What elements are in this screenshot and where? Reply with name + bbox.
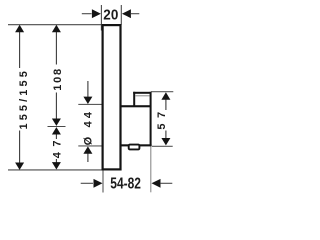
arrow down 155/155 <box>15 163 24 170</box>
wall plate (side view) <box>103 25 121 169</box>
handle inner detail line <box>135 95 150 97</box>
handle bottom edge (left of button) <box>120 144 128 146</box>
wire 57 bottom extension <box>152 145 173 147</box>
dimension 54-82 line right tail <box>160 182 172 184</box>
dimension 20 line left tail <box>82 13 92 15</box>
arrow left 54-82 <box>152 179 161 188</box>
arrow down Ø44 (above top ext) <box>83 97 92 104</box>
svg-text:108: 108 <box>52 67 64 91</box>
svg-text:47: 47 <box>52 135 64 158</box>
wire 54-82 left extension <box>102 171 104 193</box>
svg-text:20: 20 <box>103 7 118 24</box>
handle front box top edge <box>133 92 151 94</box>
dimension 155/155 line <box>19 28 21 167</box>
arrow left 20 <box>122 9 131 18</box>
handle front box step (left edge) <box>133 92 135 107</box>
dimension 57 line <box>165 99 167 138</box>
arrow up 57 <box>161 92 170 99</box>
arrow right 54-82 <box>94 179 103 188</box>
svg-text:Ø 44: Ø 44 <box>82 109 94 146</box>
arrow right 20 <box>92 9 101 18</box>
svg-text:155/155: 155/155 <box>18 68 30 129</box>
wire 20 left extension <box>100 5 102 31</box>
arrow up Ø44 (below bottom ext) <box>83 146 92 153</box>
select button <box>129 145 140 150</box>
dimension 47 line <box>55 134 57 167</box>
wire bottom extension line (plate bottom level) <box>8 169 102 171</box>
wire 54-82 right extension <box>150 147 152 193</box>
svg-text:57: 57 <box>156 106 168 129</box>
svg-text:54-82: 54-82 <box>110 174 141 192</box>
arrow up 108 <box>52 25 61 32</box>
wire top extension line (plate top level) <box>8 24 102 26</box>
wire Ø44 bottom extension <box>78 145 101 147</box>
arrow down 108 <box>52 119 61 126</box>
valve sleeve top edge <box>120 105 151 107</box>
dimension 54-82 line left tail <box>81 182 93 184</box>
wire 57 top extension <box>151 91 173 93</box>
dimension 108 line <box>55 28 57 119</box>
dimension Ø44 line <box>87 81 89 162</box>
wire 20 right extension <box>120 5 122 25</box>
wire tick extension 108/47 <box>48 126 66 128</box>
arrow up 155/155 <box>15 25 24 32</box>
arrow up 47 <box>52 127 61 134</box>
arrow down 47 <box>52 162 61 169</box>
dimension 20 line right tail <box>131 13 140 15</box>
handle bottom edge (right of button) <box>139 144 151 146</box>
wire Ø44 top extension <box>78 103 101 105</box>
handle front face <box>150 92 152 146</box>
arrow down 57 <box>161 138 170 145</box>
